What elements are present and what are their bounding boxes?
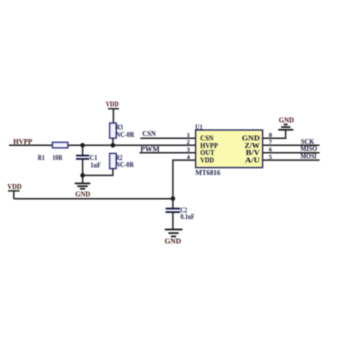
node junction C1 top [80,143,85,148]
op-amp U1 MT6816 body [195,123,262,177]
node junction C2 top [171,196,176,201]
svg-text:A/U: A/U [245,155,260,164]
svg-text:GND: GND [165,237,181,245]
svg-text:CSN: CSN [142,129,156,138]
svg-text:NC-0R: NC-0R [116,162,134,169]
power VDD top [106,101,119,124]
svg-text:0.1uF: 0.1uF [181,214,195,221]
svg-text:NC-0R: NC-0R [116,132,135,139]
resistor R1 [38,142,68,162]
node junction C1 bottom [80,173,85,178]
svg-text:MOSI: MOSI [301,152,317,161]
svg-text:10R: 10R [52,155,62,162]
resistor R2 [110,153,134,169]
wire chip pin4 VDD down to C2 [173,160,196,198]
wire R1 to chip pin2 HVPP [68,144,196,146]
svg-text:MT6816: MT6816 [195,169,220,177]
svg-text:VDD: VDD [200,155,214,164]
resistor R3 [110,123,135,139]
wire R3 bottom to junction [112,138,114,145]
wire pin7 SCK [263,144,320,146]
svg-text:VDD: VDD [7,183,21,191]
power VDD left [7,183,21,199]
ground below C1 [75,175,91,198]
ground top right [278,116,294,130]
capacitor C2 [166,199,195,230]
svg-text:GND: GND [75,190,90,198]
wire HVPP to R1 [9,144,52,146]
wire pin8 to ground [263,130,286,138]
svg-text:1: 1 [187,132,190,139]
svg-text:C1: C1 [90,155,98,162]
wire PWM to pin3 [140,152,196,154]
wire pin6 MISO [263,152,320,154]
svg-text:R3: R3 [116,124,124,131]
svg-text:R1: R1 [38,155,46,162]
wire R2 bottom to ground rail [83,169,113,176]
wire CSN to pin1 [140,137,195,139]
svg-text:GND: GND [279,116,294,124]
svg-text:U1: U1 [195,123,203,131]
ground below C2 [165,230,183,246]
svg-text:VDD: VDD [106,101,119,109]
wire pin5 MOSI [263,159,320,161]
svg-text:R2: R2 [116,155,123,162]
svg-text:1uF: 1uF [90,162,101,169]
capacitor C1 [76,145,101,175]
wire VDD rail to C2 [14,198,173,200]
node junction R3-R2 [111,143,116,148]
